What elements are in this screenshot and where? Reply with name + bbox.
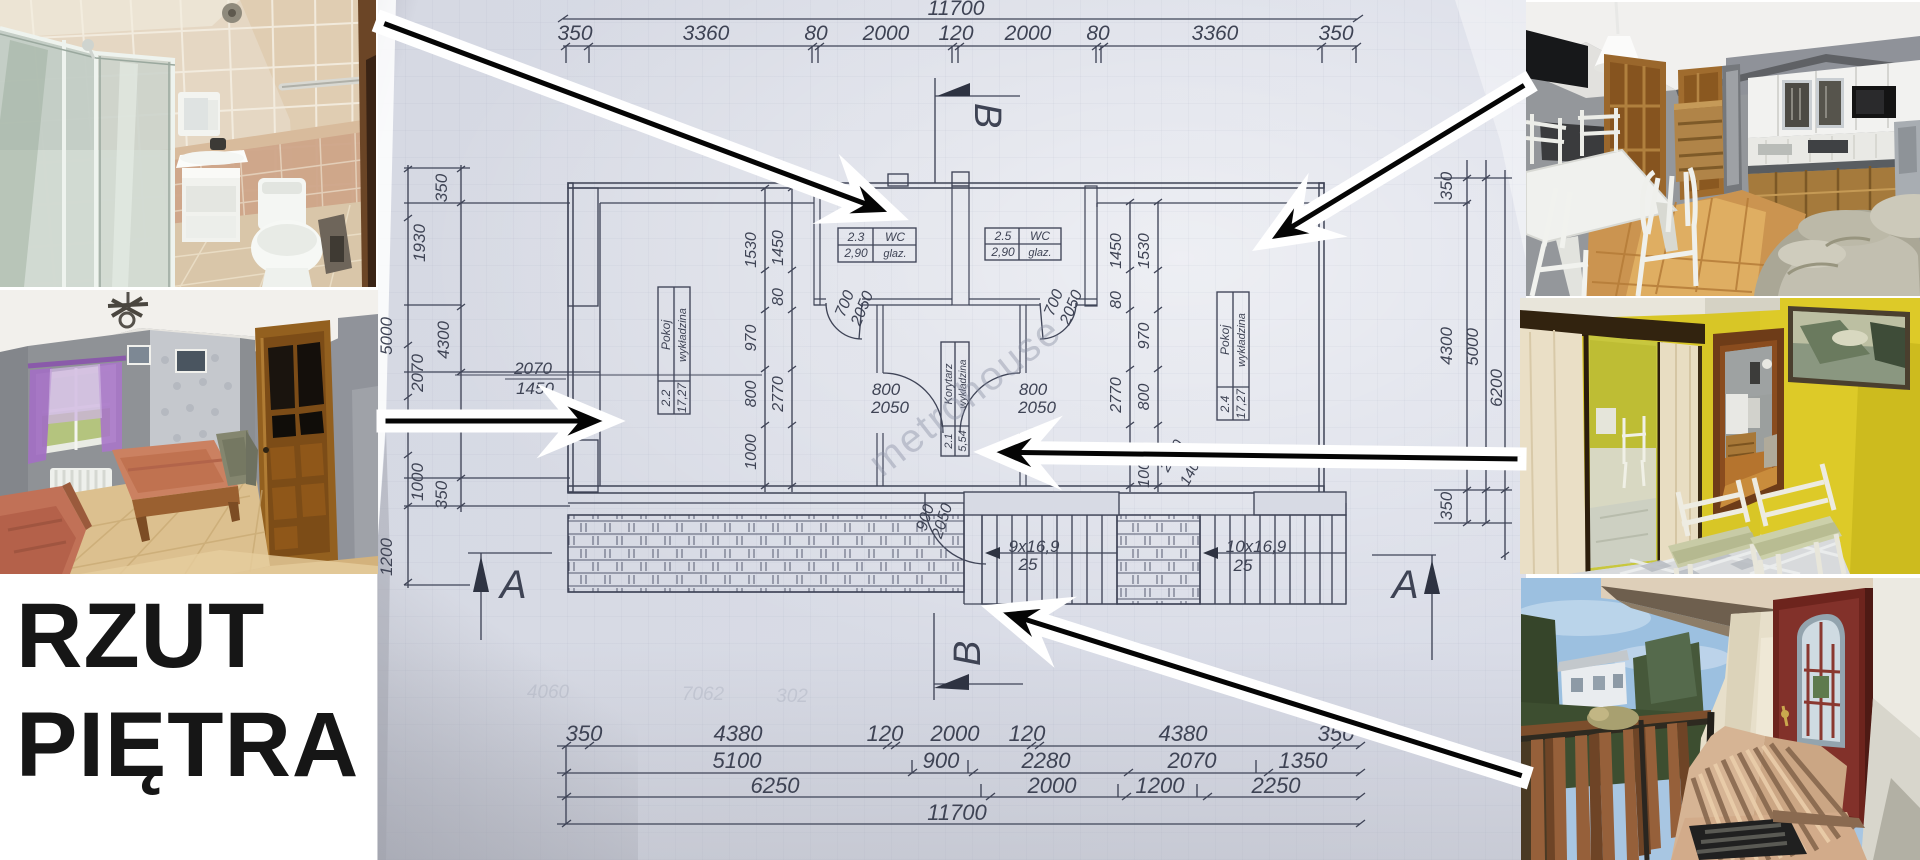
chair front left [1532,188,1588,296]
dark fixture right [318,214,352,274]
left gray wall [0,346,28,574]
svg-text:B: B [966,103,1008,128]
floor [0,468,270,574]
shower head [82,39,94,51]
fridge [1894,120,1920,226]
svg-text:B: B [947,641,989,666]
lower cabinets [1748,166,1920,222]
trees/hedge dark [1521,614,1561,750]
railing wooden [1521,706,1711,860]
svg-text:4300: 4300 [1437,327,1456,365]
svg-text:6250: 6250 [751,773,801,798]
toilet [251,178,323,287]
svg-text:1450: 1450 [1108,233,1125,269]
svg-text:350: 350 [566,721,603,746]
door arc corridor right [960,373,1020,433]
svg-text:80: 80 [804,22,828,45]
bottom dimension block [557,721,1365,827]
microwave black built-in [1852,86,1896,118]
svg-text:11700: 11700 [928,0,985,20]
arrow porch -> balcony/stairs [992,603,1528,784]
tiled wall base [0,0,376,287]
doormat [1689,818,1807,860]
chairs bottom right [1668,464,1844,604]
svg-text:4060: 4060 [527,682,570,703]
svg-text:1930: 1930 [410,224,429,262]
chimney bump 1 [888,174,908,186]
door maroon [1773,588,1865,828]
section marker A left [468,553,552,640]
stair landing hatch [1117,515,1200,604]
armchair [216,430,256,486]
tile grout grid [0,0,376,287]
ceiling [0,290,378,365]
outer dim chain left [377,165,600,588]
svg-text:wykładzina: wykładzina [1236,313,1248,367]
balcony hatched terrace [568,515,964,592]
arched glass [1797,614,1845,748]
floor [1586,190,1806,296]
top dimension segment labels [557,22,1353,45]
outer walls [568,183,1324,503]
curtains purple [28,368,52,464]
svg-text:25: 25 [1233,556,1253,575]
svg-text:2000: 2000 [930,721,981,746]
label wc 2.3 [838,228,916,262]
svg-text:2070: 2070 [408,354,427,393]
svg-text:2.4: 2.4 [1218,395,1232,413]
svg-text:10x16,9: 10x16,9 [1226,537,1287,556]
svg-text:25: 25 [1018,555,1038,574]
arrow bedroom -> room2.2 [381,395,614,447]
corridor right wall with door opening [1020,305,1026,486]
door [255,320,338,568]
svg-text:6200: 6200 [1487,369,1506,407]
wall wc2.5 right [1085,186,1097,306]
svg-text:A: A [498,563,527,607]
house wall cream [1691,608,1821,860]
svg-text:302: 302 [776,686,808,707]
door arc wc2.5 [1040,303,1076,339]
svg-text:350: 350 [432,480,451,509]
backsplash [1748,130,1920,166]
svg-text:2.5: 2.5 [994,229,1012,243]
svg-text:2000: 2000 [862,22,910,45]
window niche left bottom [568,440,598,492]
upper cabinets white [1748,60,1920,138]
door lower panels [270,443,326,550]
svg-text:2770: 2770 [770,376,787,413]
svg-text:2050: 2050 [870,398,909,417]
window niche left top [568,188,598,306]
wc2.5 bottom wall with door opening [969,299,1097,305]
svg-text:350: 350 [1437,491,1456,520]
mirror cabinet [178,92,220,136]
section marker A right [1372,555,1440,660]
doorway to kitchen [1713,328,1784,520]
svg-text:350: 350 [432,173,451,202]
svg-text:800: 800 [1019,380,1048,399]
chair front right [1638,168,1696,296]
couch bottom-left [0,486,86,574]
dining table [1526,150,1676,242]
glass reflections [0,40,48,287]
svg-text:1000: 1000 [1136,452,1153,488]
svg-text:350: 350 [1318,721,1355,746]
svg-text:wykładzina: wykładzina [677,308,689,362]
svg-text:120: 120 [938,22,973,45]
dark lowboard under TV [1540,122,1622,164]
svg-text:glaz.: glaz. [883,248,906,260]
PHOTO4 yellow hallway right [1520,298,1920,574]
frosted lower glass [0,150,175,287]
tiled floor [1520,556,1700,574]
svg-text:Pokoj: Pokoj [1218,325,1232,355]
interior dim chain left [743,185,796,492]
svg-text:1200: 1200 [377,538,396,576]
door label 900/2050 [913,496,957,541]
glass cabinet doors [1782,80,1812,130]
faucet [210,138,226,150]
dark ceiling edge band [1676,54,1920,96]
svg-text:17,27: 17,27 [1234,388,1248,419]
svg-text:1350: 1350 [1279,748,1329,773]
PHOTO5 porch bottom-right [1521,578,1920,860]
svg-text:2000: 2000 [1027,773,1078,798]
counter [1748,158,1920,174]
floor inside room [1725,450,1772,502]
stair flight 2 [1200,515,1346,604]
shower frame lines [0,28,175,287]
walls base [0,290,378,574]
svg-text:3360: 3360 [683,22,730,45]
sink and hob [1758,144,1792,155]
svg-text:1000: 1000 [743,434,760,470]
ceiling [1526,2,1920,90]
arrow bathroom -> wc2.3 [378,15,899,218]
white textured wall right [1861,578,1920,860]
wallpaper panel [150,330,240,462]
flowers on railing [1587,706,1639,730]
chest of drawers [1674,106,1724,182]
arrow kitchen -> room2.4 [1262,77,1532,245]
paper top-right bright corner [1455,0,1526,260]
yellow wall base [1520,298,1920,574]
top dimension line 11700 [558,0,1363,22]
label 2070/1450 window [455,359,762,398]
roof eave [1601,578,1920,614]
label room 2.4 [1217,292,1249,420]
svg-text:Pokoj: Pokoj [659,320,673,350]
svg-text:1000: 1000 [408,463,427,501]
gray wall above cabinets [1726,36,1920,96]
chest inside [1726,432,1756,474]
paper left edge wedge [377,0,396,550]
window wall [28,330,150,500]
svg-text:2,90: 2,90 [990,245,1015,259]
open doorway dark [1722,64,1742,194]
ceiling wedge [0,0,240,38]
PHOTO1 bathroom top-left [0,0,376,287]
wardrobe dark top rail [1520,310,1705,344]
door label 800/2050 right [1017,380,1056,417]
wall shading [1749,634,1821,860]
interior dim chain right [1108,199,1208,492]
chimney bump 2 [952,172,969,186]
arrow hallway -> corridor2.1 [985,427,1522,479]
chandelier [127,292,130,304]
stairs outline bottom [964,503,1346,604]
towel rail [282,80,362,87]
door arc 900 balcony [925,493,986,564]
svg-text:9x16,9: 9x16,9 [1008,537,1060,556]
section marker B bottom [934,613,1023,700]
svg-text:WC: WC [885,230,905,244]
gray wall right of wallpaper [240,338,255,574]
mirror frame [1586,335,1660,574]
corridor left wall with door opening [877,305,883,486]
svg-text:1530: 1530 [743,232,760,268]
white chairs behind table [1526,108,1620,164]
svg-text:1530: 1530 [1136,233,1153,269]
svg-text:4380: 4380 [1159,721,1209,746]
svg-text:800: 800 [1136,384,1153,411]
left dark TV [1526,30,1588,88]
svg-text:glaz.: glaz. [1028,247,1051,259]
svg-text:2,90: 2,90 [843,246,868,260]
shower enclosure glass [0,30,96,287]
right wall beyond door [338,314,378,574]
svg-text:800: 800 [743,381,760,408]
label wc 2.5 [985,228,1061,260]
right warm wall [240,0,376,287]
svg-text:350: 350 [557,22,592,45]
radiator [50,468,112,502]
svg-text:5000: 5000 [377,317,396,355]
flue wall between WCs [952,186,969,305]
svg-text:2770: 2770 [1108,377,1125,414]
painting top right [1788,306,1910,390]
ceiling strip [1520,298,1705,320]
floor [120,200,376,287]
door edge right [358,0,376,287]
window [36,364,116,455]
svg-text:4380: 4380 [714,721,764,746]
svg-text:WC: WC [1030,229,1050,243]
mirror reflection: radiator + chair [1596,408,1616,434]
svg-text:7062: 7062 [682,684,725,705]
top dimension chain line [563,45,1358,47]
svg-text:2000: 2000 [1004,22,1052,45]
stair flight 1 [982,515,1117,604]
wardrobe cream left panel [1520,328,1586,574]
sink cabinet [176,138,248,242]
wardrobe mirror panel [1586,335,1660,574]
inner wall faces [600,203,1319,486]
wc2.3 bottom wall with door opening [814,299,952,305]
wall projection ticks below top chain [566,46,1356,63]
pendant lamp [1616,2,1618,34]
couch right [1754,210,1920,296]
basin [176,150,248,168]
wall between balcony and stairs [964,503,982,604]
label corridor 2.1 [941,342,969,456]
accent terracotta band [160,128,376,235]
sky [1521,578,1920,860]
section marker B top [935,78,1020,183]
pictures [128,346,150,364]
walls base [1526,2,1920,296]
svg-text:5,54: 5,54 [957,430,969,451]
svg-text:120: 120 [1009,721,1046,746]
bed [112,440,238,500]
svg-text:2250: 2250 [1251,773,1302,798]
svg-text:5100: 5100 [713,748,763,773]
svg-text:A: A [1390,563,1419,607]
svg-text:970: 970 [1136,323,1153,350]
svg-text:120: 120 [867,721,904,746]
svg-text:970: 970 [743,325,760,352]
caption RZUT PIĘTRA [16,582,386,800]
svg-text:2050: 2050 [1017,398,1056,417]
svg-text:3360: 3360 [1192,22,1239,45]
door glass 2x2 [268,345,295,410]
inside room [1725,346,1772,502]
PHOTO2 bedroom left [0,290,378,574]
svg-text:11700: 11700 [927,800,987,825]
svg-text:2.2: 2.2 [659,389,673,407]
armchair inside [1764,434,1777,468]
svg-text:2.3: 2.3 [847,230,865,244]
door label 800/2050 left [870,380,909,417]
label room 2.2 [658,287,690,414]
wall stub above landing [964,492,1119,515]
door handle [1781,710,1789,718]
svg-text:80: 80 [1108,291,1125,309]
wall room2.2 / wc2.3 [814,186,820,305]
svg-text:350: 350 [1437,171,1456,200]
floor-plan paper background [378,0,1526,860]
door arc corridor left [883,373,943,433]
PHOTO3 kitchen top-right [1526,2,1920,296]
svg-text:350: 350 [1318,22,1353,45]
door label 700/2050 right [1040,281,1086,328]
svg-text:800: 800 [872,380,901,399]
distant white house [1561,662,1627,712]
svg-text:1200: 1200 [1136,773,1186,798]
shadow stripes on walkway [1693,744,1855,860]
dark frame right of door [1865,588,1873,830]
svg-text:2070: 2070 [1167,748,1218,773]
vent top [222,3,242,23]
mosaic border above accent [160,118,376,162]
svg-text:1450: 1450 [516,379,554,398]
wardrobe cream right panel [1660,342,1700,564]
svg-text:1450: 1450 [770,230,787,266]
tiled walkway [1671,726,1765,860]
door 2 [1678,66,1724,200]
shadow under door [1773,810,1865,828]
door label 700/2050 left [831,282,877,329]
svg-text:900: 900 [923,748,960,773]
svg-text:2280: 2280 [1021,748,1072,773]
metal posts [1707,712,1711,860]
svg-text:17,27: 17,27 [675,382,689,413]
svg-text:80: 80 [770,288,787,306]
svg-text:5000: 5000 [1463,328,1482,366]
svg-text:80: 80 [1086,22,1110,45]
svg-text:4300: 4300 [434,321,453,359]
outer dim chain right [1434,160,1512,560]
ghost faint numbers [527,682,808,707]
door 1 [1604,54,1666,210]
door arc wc2.3 [826,303,862,339]
